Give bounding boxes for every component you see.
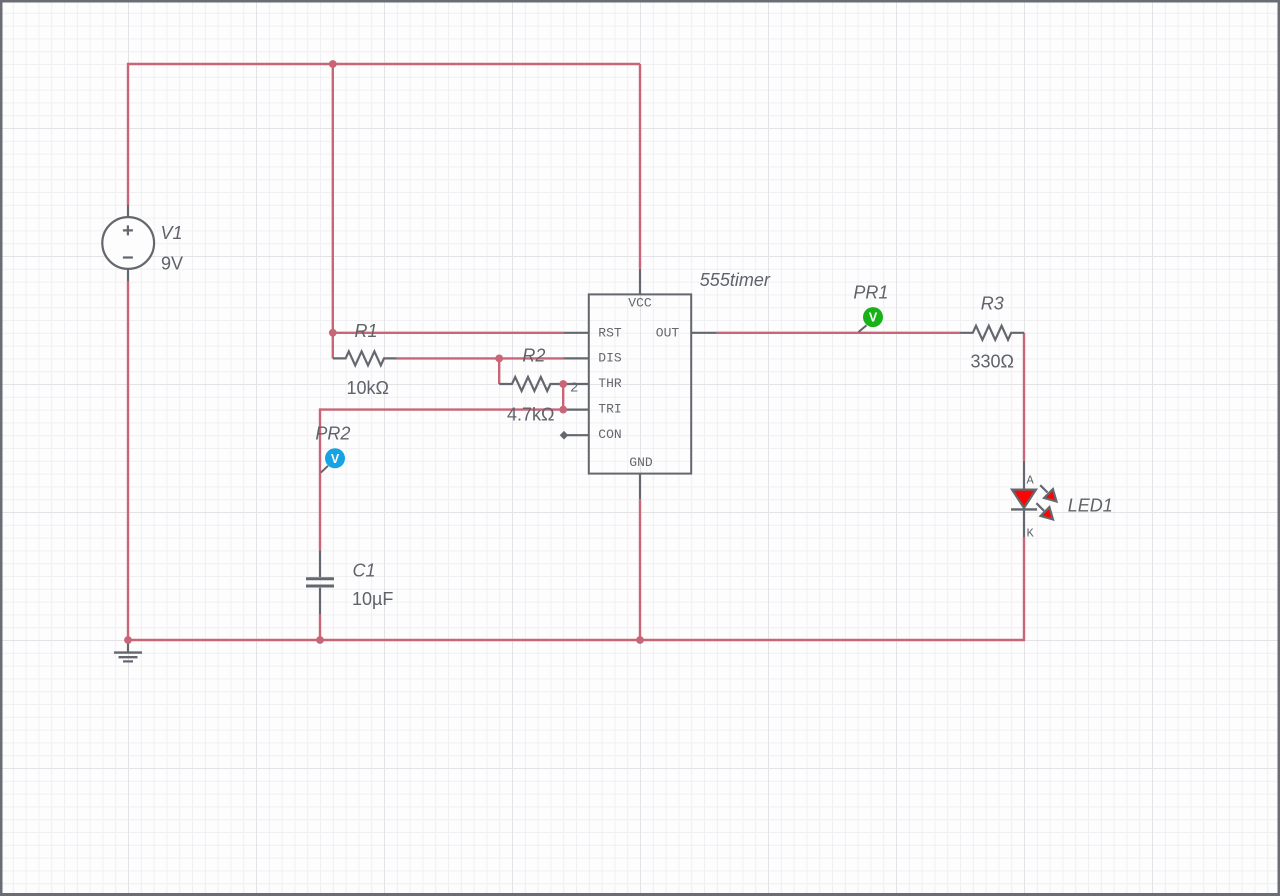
svg-text:330Ω: 330Ω — [971, 352, 1015, 372]
svg-text:DIS: DIS — [598, 351, 622, 366]
svg-text:4.7kΩ: 4.7kΩ — [507, 404, 554, 424]
svg-text:10kΩ: 10kΩ — [347, 378, 389, 398]
svg-text:R3: R3 — [981, 294, 1004, 314]
svg-text:PR1: PR1 — [853, 282, 888, 302]
svg-text:10µF: 10µF — [352, 589, 393, 609]
svg-text:R2: R2 — [522, 345, 545, 365]
svg-text:OUT: OUT — [656, 325, 680, 340]
svg-text:VCC: VCC — [628, 296, 652, 311]
svg-text:GND: GND — [629, 455, 653, 470]
svg-text:K: K — [1027, 527, 1035, 541]
svg-text:RST: RST — [598, 325, 622, 340]
svg-text:THR: THR — [598, 376, 622, 391]
svg-text:A: A — [1027, 474, 1035, 488]
svg-text:C1: C1 — [353, 560, 376, 580]
svg-text:TRI: TRI — [598, 401, 621, 416]
svg-text:LED1: LED1 — [1068, 495, 1113, 515]
svg-text:PR2: PR2 — [315, 423, 350, 443]
svg-text:V1: V1 — [161, 223, 183, 243]
svg-text:R1: R1 — [355, 321, 378, 341]
svg-text:555timer: 555timer — [700, 270, 771, 290]
svg-text:V: V — [869, 311, 878, 325]
svg-text:2: 2 — [570, 381, 578, 397]
svg-text:9V: 9V — [161, 254, 183, 274]
svg-text:CON: CON — [598, 427, 621, 442]
svg-text:V: V — [331, 452, 340, 466]
